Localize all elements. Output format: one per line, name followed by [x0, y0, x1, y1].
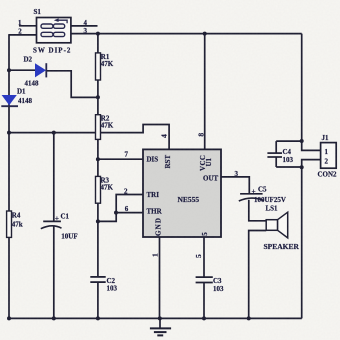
wire C1 bottom — [53, 226, 55, 318]
wire left rail — [8, 34, 10, 318]
switch S1 — [37, 18, 71, 43]
wire C4 top lead — [276, 141, 302, 153]
node junction GND pin on ground rail — [158, 316, 162, 320]
wire GND pin1 — [159, 237, 161, 318]
capacitor C2 — [90, 277, 105, 282]
wire C4 bottom lead — [276, 157, 302, 167]
wire D2 anode — [9, 69, 35, 71]
wire C2 to ground rail — [97, 282, 99, 318]
wire S1 pin4 stub — [71, 25, 98, 27]
connector J1 CON2 — [321, 143, 337, 169]
speaker LS1 — [266, 212, 288, 238]
node junction C1 on ground rail — [52, 316, 56, 320]
node junction left rail on ground rail — [7, 316, 11, 320]
wire THR pin6 — [115, 212, 143, 214]
node junction speaker branch on ground rail — [247, 316, 251, 320]
node junction C3 on ground rail — [202, 316, 206, 320]
capacitor C5 — [239, 194, 264, 201]
node junction C1 top — [52, 131, 56, 135]
wire S1 pin2 to left rail — [9, 34, 37, 36]
node junction R2/R3/DIS — [96, 157, 100, 161]
op IC U1 NE555 — [143, 149, 221, 237]
wire bottom ground rail — [9, 317, 302, 319]
wire R1 bottom to R2 top — [97, 80, 99, 115]
wire DIS pin7 — [98, 158, 143, 160]
wire OUT pin3 to C5 — [221, 177, 249, 194]
scan noise overlay — [0, 0, 1, 1]
node junction C2 on ground rail — [96, 316, 100, 320]
resistor R2 — [96, 115, 101, 140]
wire mid horizontal to RST pin4 — [9, 125, 169, 150]
node junction VCC pin8 on top rail — [203, 32, 207, 36]
wire top VCC rail — [71, 33, 302, 35]
diode D1 — [1, 95, 18, 106]
resistor R4 — [7, 211, 12, 237]
node junction R3/C2/THR — [96, 219, 100, 223]
wire S1 pin1 stub — [19, 25, 37, 27]
resistor R1 — [96, 53, 101, 80]
wire D2 cathode to R1/R2 node — [47, 71, 98, 98]
node junction C4 bottom on right rail — [300, 165, 304, 169]
node junction D2 anode on left rail — [7, 68, 11, 72]
wire right rail top to J1 pin1 — [302, 34, 321, 151]
wire C5 to speaker pin1 — [249, 200, 266, 221]
wire CV pin5 to C3 — [203, 237, 205, 277]
node junction mid wire on left rail — [7, 131, 11, 135]
wire C3 to ground rail — [203, 283, 205, 319]
node junction TRI/THR step — [114, 211, 118, 215]
node junction S1 pin3 / R1 — [96, 32, 100, 36]
wire R3 bottom to C2 — [97, 203, 99, 277]
diode D2 — [35, 63, 46, 77]
capacitor C4 — [267, 153, 282, 157]
wire R1 top — [97, 34, 99, 53]
node junction C4 top on right rail — [300, 139, 304, 143]
wire THR node to R3-C2 node — [98, 213, 116, 222]
wire VCC pin8 — [204, 34, 206, 150]
wire J1 pin2 to right rail bottom — [302, 160, 321, 319]
capacitor C1 — [41, 221, 62, 228]
wire TRI pin2 step — [116, 195, 143, 213]
wire speaker pin2 to ground rail — [249, 231, 267, 319]
node junction R1/R2/D2 — [96, 95, 100, 99]
ground — [150, 318, 171, 335]
capacitor C3 — [196, 277, 213, 282]
wire C1 top — [53, 133, 55, 222]
resistor R3 — [96, 176, 101, 203]
wire R2 bottom to R3 top — [97, 139, 99, 176]
